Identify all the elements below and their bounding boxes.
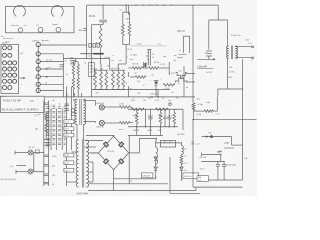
- svg-text:4.0M (.00: 4.0M (.00: [184, 176, 192, 178]
- svg-text:7a W: 7a W: [224, 143, 229, 145]
- svg-text:#0(.1 (0): #0(.1 (0): [150, 94, 159, 96]
- svg-text:lnd of: lnd of: [2, 43, 7, 45]
- svg-text:an W: an W: [119, 104, 124, 106]
- svg-text:40: 40: [130, 89, 132, 91]
- svg-text:0 4 4a: 0 4 4a: [105, 57, 111, 59]
- svg-text:6-80? 0#%: 6-80? 0#%: [77, 193, 89, 196]
- svg-text:(00 40: (00 40: [33, 41, 40, 43]
- svg-text:10 (78/H: 10 (78/H: [177, 134, 185, 136]
- svg-text:(4: (4: [56, 119, 58, 121]
- svg-text:an(: an(: [174, 55, 177, 57]
- svg-text:an: an: [120, 10, 122, 12]
- svg-text:a0: a0: [186, 87, 188, 89]
- svg-text:wrt wntn ta: wrt wntn ta: [3, 37, 14, 40]
- svg-text:(0 /4): (0 /4): [197, 114, 202, 116]
- svg-text:(0) 1.0: (0) 1.0: [29, 147, 36, 149]
- svg-text:100 F.0s: 100 F.0s: [96, 103, 104, 105]
- svg-text:M 1 M: M 1 M: [133, 64, 139, 66]
- svg-text:a4W: a4W: [93, 68, 97, 70]
- svg-text:4 a0: 4 a0: [130, 59, 134, 61]
- svg-text:(0: (0: [179, 50, 181, 52]
- svg-text:a7: a7: [143, 85, 145, 87]
- svg-text:BTL M.: BTL M.: [178, 30, 186, 33]
- svg-text:t.0 W: t.0 W: [170, 72, 175, 75]
- svg-text:a0: a0: [50, 110, 52, 112]
- svg-text:a0#: a0#: [217, 149, 222, 153]
- svg-text:an m: an m: [119, 129, 124, 131]
- svg-text:(01 (.00 (.00 (0) 0: (01 (.00 (.00 (0) 0: [1, 179, 17, 181]
- svg-text:7-(0: 7-(0: [198, 180, 201, 182]
- svg-text:a0: a0: [89, 56, 91, 58]
- svg-text:(.0P + (.0: (.0P + (.0: [191, 143, 201, 145]
- svg-text:40/450 (0M: 40/450 (0M: [226, 165, 236, 167]
- svg-text:a: a: [42, 42, 43, 44]
- svg-text:(1: (1: [152, 57, 154, 59]
- svg-text:a4: a4: [65, 61, 67, 63]
- svg-text:W: W: [152, 54, 154, 56]
- svg-text:7 W/A: 7 W/A: [132, 114, 138, 117]
- svg-text:(m: (m: [112, 60, 115, 62]
- svg-text:10M (4M: 10M (4M: [142, 175, 150, 177]
- svg-text:47H: 47H: [228, 77, 232, 79]
- svg-text:a0: a0: [135, 73, 137, 75]
- svg-text:(4: (4: [45, 82, 47, 84]
- svg-text:a0: a0: [162, 98, 164, 100]
- svg-text:L( a(0(: L( a(0(: [130, 54, 136, 56]
- svg-text:a 4a: a 4a: [46, 147, 50, 149]
- svg-text:(((: (((: [205, 53, 207, 55]
- svg-text:(0: (0: [85, 63, 87, 65]
- svg-text:4(4 44: 4(4 44: [134, 130, 139, 132]
- svg-text:E1 W: E1 W: [207, 72, 213, 74]
- svg-text:70 ELT 10 HP: 70 ELT 10 HP: [3, 99, 22, 103]
- svg-text:47k #L: 47k #L: [89, 16, 97, 18]
- svg-text:90.A ALL(INPUT SUPPLY: 90.A ALL(INPUT SUPPLY: [2, 108, 39, 112]
- svg-text:4a: 4a: [59, 103, 61, 105]
- svg-text:a01: a01: [96, 93, 99, 95]
- svg-text:500 F.0s: 500 F.0s: [96, 127, 104, 129]
- svg-text:1)0mF: 1)0mF: [148, 115, 154, 117]
- svg-text:6E(: 6E(: [70, 57, 74, 59]
- svg-text:40: 40: [51, 137, 53, 139]
- svg-text:41 W: 41 W: [154, 62, 159, 64]
- svg-text:a Wy: a Wy: [206, 102, 210, 104]
- svg-text:M: M: [36, 128, 38, 131]
- svg-text:0.1 7(: 0.1 7(: [160, 64, 165, 66]
- svg-text:5PG 4): 5PG 4): [108, 151, 115, 153]
- svg-text:1 A: 1 A: [244, 157, 248, 160]
- svg-text:10 9a: 10 9a: [229, 71, 235, 73]
- svg-text:a0 4: a0 4: [47, 67, 51, 69]
- svg-text:n h: n h: [24, 25, 27, 27]
- svg-text:(0 1 (0: (0 1 (0: [47, 60, 52, 62]
- svg-text:a n: a n: [127, 22, 130, 24]
- svg-text:1.6 (01 0n: 1.6 (01 0n: [231, 35, 242, 37]
- svg-text:(1) 4 W: (1) 4 W: [200, 157, 207, 159]
- svg-text:brgml: brgml: [53, 24, 59, 26]
- svg-text:1: 1: [127, 57, 128, 59]
- svg-text:L30a WF: L30a WF: [197, 66, 207, 69]
- svg-text:0.02: 0.02: [158, 130, 162, 132]
- svg-text:a(0: a(0: [52, 100, 55, 102]
- svg-text:4.7%: 4.7%: [168, 115, 173, 117]
- svg-text:14(1): 14(1): [137, 44, 142, 46]
- svg-text:wwm wn: wwm wn: [11, 25, 19, 27]
- svg-text:0/4W: 0/4W: [148, 130, 153, 132]
- svg-text:(.01 + 3.0: (.01 + 3.0: [163, 141, 172, 143]
